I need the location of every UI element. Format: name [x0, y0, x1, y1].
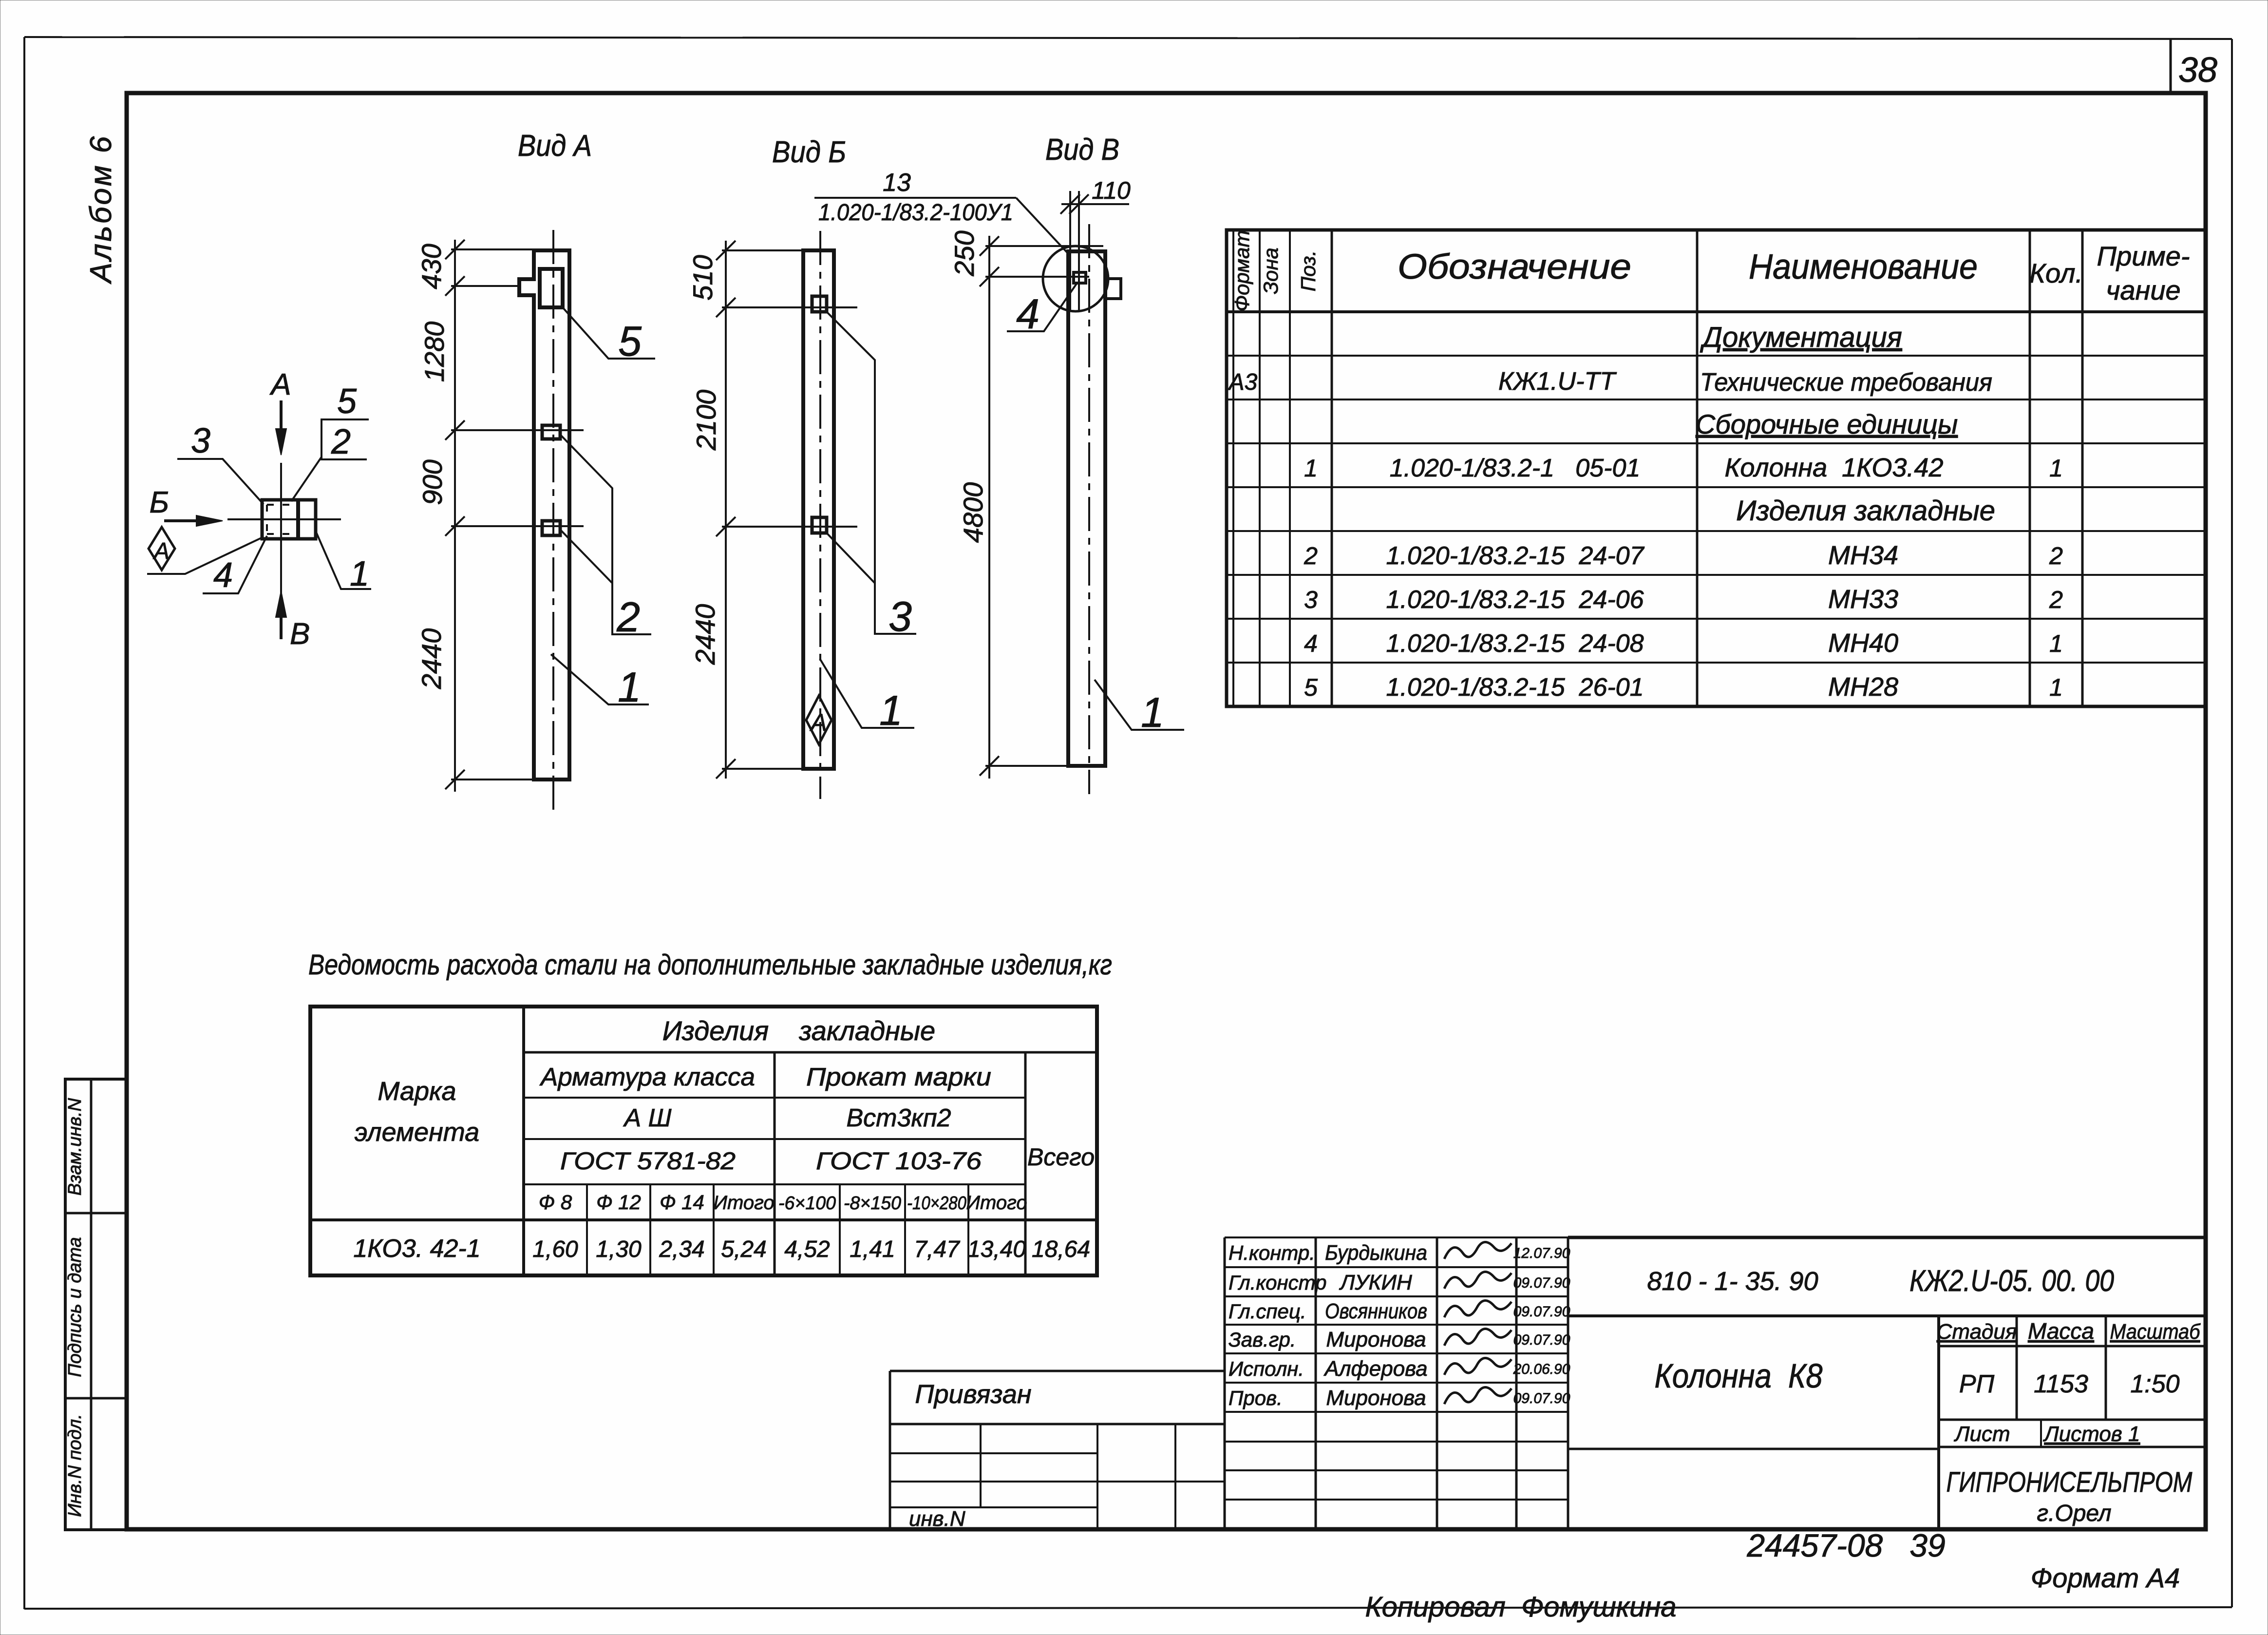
- svg-text:Всего: Всего: [1027, 1143, 1095, 1171]
- cross-section outline: [262, 500, 316, 539]
- svg-text:1.020-1/83.2-15 24-07: 1.020-1/83.2-15 24-07: [1386, 542, 1644, 570]
- svg-text:5: 5: [1304, 674, 1318, 701]
- svg-text:А Ш: А Ш: [623, 1104, 672, 1132]
- svg-text:1,41: 1,41: [850, 1236, 895, 1262]
- svg-text:1153: 1153: [2034, 1370, 2088, 1398]
- svg-text:МН33: МН33: [1828, 585, 1898, 614]
- parts header bottom: [1227, 310, 2205, 313]
- svg-text:2,34: 2,34: [659, 1236, 704, 1262]
- svg-text:2: 2: [331, 422, 351, 461]
- armatura/prokat divider: [774, 1052, 776, 1275]
- svg-text:Приме-: Приме-: [2097, 241, 2190, 271]
- svg-text:250: 250: [949, 230, 980, 276]
- view A column outline: [519, 250, 569, 779]
- svg-text:1,30: 1,30: [596, 1236, 642, 1262]
- svg-text:Б: Б: [150, 486, 169, 519]
- svg-text:Арматура класса: Арматура класса: [539, 1063, 755, 1091]
- svg-text:18,64: 18,64: [1032, 1236, 1090, 1262]
- svg-text:3: 3: [1304, 586, 1318, 613]
- plate item 4 view V: [1074, 272, 1086, 283]
- svg-text:Подпись и дата: Подпись и дата: [65, 1237, 85, 1377]
- svg-text:КЖ1.U-ТТ: КЖ1.U-ТТ: [1498, 367, 1617, 396]
- cross-section dashed inserts: [267, 504, 279, 506]
- diamond mark A view B: [806, 696, 832, 744]
- svg-text:Колонна 1КО3.42: Колонна 1КО3.42: [1725, 453, 1944, 482]
- svg-text:В: В: [290, 617, 310, 651]
- dim ticks view V: [980, 236, 999, 256]
- view B centerline: [819, 231, 821, 799]
- svg-text:А: А: [269, 368, 291, 401]
- ext line bottom: [451, 779, 569, 780]
- svg-text:Алферова: Алферова: [1323, 1357, 1427, 1381]
- view B dimension line: [725, 241, 727, 779]
- svg-text:12.07.90: 12.07.90: [1513, 1245, 1570, 1261]
- svg-text:элемента: элемента: [355, 1118, 479, 1147]
- svg-text:Лист: Лист: [1953, 1422, 2010, 1446]
- svg-text:900: 900: [417, 459, 448, 505]
- ext line 900: [451, 525, 584, 527]
- svg-text:3: 3: [888, 593, 912, 640]
- svg-text:20.06.90: 20.06.90: [1513, 1361, 1570, 1377]
- left margin stamp: [65, 1079, 127, 1530]
- svg-text:Зав.гр.: Зав.гр.: [1228, 1328, 1296, 1351]
- view V dimension line: [988, 236, 990, 779]
- svg-text:Гл.спец.: Гл.спец.: [1228, 1300, 1306, 1323]
- svg-text:2: 2: [2049, 542, 2063, 570]
- svg-text:Изделия закладные: Изделия закладные: [1736, 495, 1995, 527]
- svg-text:1280: 1280: [419, 322, 450, 382]
- plate item 3 upper view B: [812, 296, 827, 312]
- callout 1 view A: [551, 654, 649, 704]
- svg-text:3: 3: [191, 421, 210, 460]
- svg-text:Листов 1: Листов 1: [2043, 1422, 2140, 1446]
- svg-text:Взам.инв.N: Взам.инв.N: [65, 1098, 85, 1196]
- svg-text:Миронова: Миронова: [1326, 1328, 1426, 1351]
- svg-text:МН34: МН34: [1828, 541, 1898, 570]
- steel table: [310, 1007, 1097, 1275]
- ext line 430: [451, 285, 519, 287]
- callout 2 view A: [560, 435, 651, 634]
- svg-text:13,40: 13,40: [967, 1236, 1026, 1262]
- svg-text:24457-08 39: 24457-08 39: [1746, 1527, 1945, 1563]
- view arrow V (bottom): [280, 602, 283, 639]
- svg-text:1: 1: [1304, 455, 1318, 482]
- svg-text:Стадия: Стадия: [1937, 1320, 2017, 1344]
- svg-text:Гл.констр: Гл.констр: [1228, 1271, 1327, 1294]
- svg-text:Обозначение: Обозначение: [1398, 247, 1631, 286]
- svg-text:-8×150: -8×150: [844, 1193, 901, 1214]
- signature table: [1224, 1237, 1226, 1529]
- view arrow A: [280, 400, 283, 444]
- svg-text:Итого: Итого: [713, 1192, 774, 1214]
- svg-text:МН40: МН40: [1828, 628, 1898, 658]
- callout 1 view V: [1095, 680, 1184, 730]
- privyazan table: [890, 1370, 1225, 1372]
- outer border bottom: [24, 1607, 2232, 1609]
- svg-text:Формат А4: Формат А4: [2031, 1562, 2180, 1593]
- svg-text:2100: 2100: [691, 390, 721, 451]
- outer border right: [2231, 39, 2233, 1607]
- view V column outline: [1068, 251, 1105, 766]
- title block stadiya divider: [1937, 1316, 1940, 1529]
- svg-text:1: 1: [2049, 674, 2063, 701]
- svg-text:1.020-1/83.2-15 26-01: 1.020-1/83.2-15 26-01: [1386, 673, 1644, 702]
- cross-section inner thick face: [296, 500, 300, 539]
- svg-text:2: 2: [2049, 586, 2063, 613]
- svg-text:13: 13: [883, 169, 911, 197]
- svg-text:Формат: Формат: [1230, 230, 1253, 312]
- main title block: [1568, 1236, 2205, 1239]
- svg-text:Вст3кп2: Вст3кп2: [846, 1104, 951, 1132]
- callout 1 cross-section: [316, 531, 371, 589]
- svg-text:4,52: 4,52: [784, 1236, 830, 1262]
- svg-text:810 - 1- 35. 90: 810 - 1- 35. 90: [1647, 1267, 1818, 1296]
- top designation label: [814, 197, 1016, 199]
- svg-text:09.07.90: 09.07.90: [1513, 1275, 1570, 1291]
- svg-text:Изделия закладные: Изделия закладные: [662, 1015, 935, 1046]
- svg-text:Н.контр.: Н.контр.: [1228, 1241, 1315, 1264]
- svg-text:А: А: [152, 538, 170, 564]
- svg-text:430: 430: [416, 244, 447, 289]
- svg-text:Документация: Документация: [1700, 322, 1902, 353]
- svg-text:Наименование: Наименование: [1749, 247, 1978, 286]
- svg-text:РП: РП: [1959, 1370, 1995, 1398]
- dim ticks view A: [445, 240, 465, 259]
- svg-text:1: 1: [2049, 630, 2063, 657]
- svg-text:2440: 2440: [416, 628, 447, 690]
- callout 4 view V: [1007, 283, 1077, 331]
- plate MH28 item 5 view A: [540, 269, 563, 307]
- svg-text:Ведомость расхода стали на доп: Ведомость расхода стали на дополнительны…: [308, 949, 1112, 981]
- plate item 3 lower view B: [812, 517, 827, 533]
- callout 5 view A: [563, 307, 655, 359]
- svg-text:КЖ2.U-05. 00. 00: КЖ2.U-05. 00. 00: [1909, 1264, 2114, 1298]
- svg-text:2: 2: [616, 594, 640, 641]
- svg-text:4: 4: [1016, 291, 1039, 338]
- svg-text:Пров.: Пров.: [1228, 1387, 1283, 1409]
- svg-text:4: 4: [1304, 630, 1318, 657]
- svg-text:1: 1: [1141, 689, 1164, 736]
- plate item 2 lower view A: [542, 521, 560, 535]
- svg-text:Технические требования: Технические требования: [1700, 368, 1992, 397]
- svg-text:510: 510: [687, 255, 718, 300]
- svg-text:Сборочные единицы: Сборочные единицы: [1696, 409, 1958, 439]
- svg-text:1: 1: [618, 664, 641, 711]
- svg-text:Бурдыкина: Бурдыкина: [1325, 1241, 1427, 1265]
- signature squiggles: [1444, 1242, 1512, 1259]
- svg-text:Масштаб: Масштаб: [2110, 1320, 2201, 1344]
- svg-text:Масса: Масса: [2028, 1318, 2094, 1344]
- svg-text:5: 5: [618, 318, 642, 365]
- svg-text:Прокат марки: Прокат марки: [806, 1063, 991, 1091]
- svg-text:Вид А: Вид А: [518, 129, 592, 163]
- svg-text:Ф 8: Ф 8: [539, 1191, 572, 1214]
- callout 5 and 2 cross-section: [291, 419, 369, 501]
- svg-text:1: 1: [350, 554, 369, 593]
- svg-text:09.07.90: 09.07.90: [1513, 1390, 1570, 1407]
- svg-text:-10×280: -10×280: [907, 1193, 966, 1214]
- view arrow B (side): [164, 519, 212, 522]
- view V right tab: [1105, 279, 1121, 299]
- svg-text:Ф 12: Ф 12: [596, 1191, 641, 1214]
- cross-section horizontal centerline: [227, 518, 341, 520]
- svg-text:Копировал Фомушкина: Копировал Фомушкина: [1365, 1591, 1676, 1623]
- view B column outline: [803, 250, 834, 769]
- svg-text:Вид Б: Вид Б: [772, 135, 846, 169]
- diamond mark A cross-section: [149, 527, 175, 570]
- svg-text:инв.N: инв.N: [909, 1507, 965, 1531]
- svg-text:Ф 14: Ф 14: [660, 1191, 704, 1214]
- svg-text:ГИПРОНИСЕЛЬПРОМ: ГИПРОНИСЕЛЬПРОМ: [1947, 1466, 2193, 1498]
- marka column divider: [522, 1007, 525, 1275]
- vsego divider: [1024, 1052, 1027, 1275]
- callout 3 view B: [827, 312, 916, 634]
- detail circle view V: [1043, 246, 1108, 311]
- outer border left: [23, 37, 25, 1609]
- svg-text:1,60: 1,60: [532, 1236, 578, 1262]
- svg-text:Привязан: Привязан: [915, 1380, 1031, 1409]
- svg-text:ЛУКИН: ЛУКИН: [1339, 1271, 1412, 1294]
- svg-text:1: 1: [879, 687, 903, 734]
- svg-text:Исполн.: Исполн.: [1228, 1357, 1304, 1380]
- svg-text:5: 5: [337, 382, 357, 421]
- svg-text:Поз.: Поз.: [1297, 250, 1320, 292]
- outer border top: [24, 37, 2232, 39]
- callout 1 view B: [820, 659, 914, 728]
- svg-text:110: 110: [1092, 177, 1131, 204]
- svg-text:1КО3. 42-1: 1КО3. 42-1: [353, 1235, 480, 1263]
- parts table double left line: [1232, 230, 1234, 706]
- svg-text:7,47: 7,47: [914, 1236, 961, 1262]
- svg-text:г.Орел: г.Орел: [2037, 1501, 2111, 1526]
- cross-section vertical centerline: [280, 463, 282, 597]
- svg-text:А3: А3: [1228, 369, 1258, 395]
- svg-text:ГОСТ 5781-82: ГОСТ 5781-82: [560, 1147, 736, 1175]
- svg-text:Марка: Марка: [378, 1077, 456, 1106]
- svg-text:4: 4: [213, 556, 233, 595]
- svg-text:1:50: 1:50: [2130, 1370, 2179, 1398]
- svg-text:1.020-1/83.2-15 24-06: 1.020-1/83.2-15 24-06: [1386, 586, 1644, 614]
- svg-text:2: 2: [1304, 542, 1318, 570]
- svg-text:1: 1: [2049, 455, 2063, 482]
- svg-text:Миронова: Миронова: [1326, 1386, 1426, 1410]
- ext line 1280: [451, 429, 584, 431]
- dim ticks view B: [716, 241, 736, 260]
- svg-text:Инв.N подл.: Инв.N подл.: [65, 1414, 85, 1517]
- svg-text:Колонна К8: Колонна К8: [1655, 1357, 1823, 1395]
- ext line top: [451, 248, 569, 250]
- svg-text:Кол.: Кол.: [2029, 258, 2083, 288]
- svg-text:38: 38: [2178, 51, 2217, 90]
- svg-text:1.020-1/83.2-15 24-08: 1.020-1/83.2-15 24-08: [1386, 629, 1644, 658]
- svg-text:МН28: МН28: [1828, 672, 1898, 702]
- svg-text:Альбом 6: Альбом 6: [84, 134, 118, 285]
- svg-text:1.020-1/83.2-1 05-01: 1.020-1/83.2-1 05-01: [1390, 454, 1641, 482]
- svg-text:1.020-1/83.2-100У1: 1.020-1/83.2-100У1: [818, 200, 1013, 226]
- svg-text:5,24: 5,24: [721, 1236, 766, 1262]
- svg-text:чание: чание: [2106, 275, 2180, 305]
- view A centerline: [552, 230, 554, 810]
- svg-text:Итого: Итого: [966, 1192, 1027, 1214]
- svg-text:2440: 2440: [690, 604, 720, 665]
- view V centerline: [1088, 224, 1090, 794]
- svg-text:09.07.90: 09.07.90: [1513, 1332, 1570, 1348]
- view A dimension line: [454, 240, 456, 792]
- parts list table: [1227, 230, 2205, 706]
- plate item 2 upper view A: [542, 425, 560, 439]
- callout 3 cross-section: [177, 459, 264, 504]
- svg-text:ГОСТ 103-76: ГОСТ 103-76: [816, 1147, 982, 1175]
- dim 110 view V: [1061, 203, 1129, 205]
- svg-text:09.07.90: 09.07.90: [1513, 1304, 1570, 1320]
- sheet number box: [2170, 39, 2172, 93]
- callout 4 cross-section: [203, 536, 267, 593]
- svg-text:Зона: Зона: [1259, 247, 1282, 294]
- svg-text:Вид В: Вид В: [1045, 133, 1119, 167]
- svg-text:А: А: [809, 709, 827, 736]
- svg-text:-6×100: -6×100: [778, 1193, 836, 1214]
- svg-text:4800: 4800: [958, 482, 988, 543]
- svg-text:Овсянников: Овсянников: [1325, 1299, 1427, 1323]
